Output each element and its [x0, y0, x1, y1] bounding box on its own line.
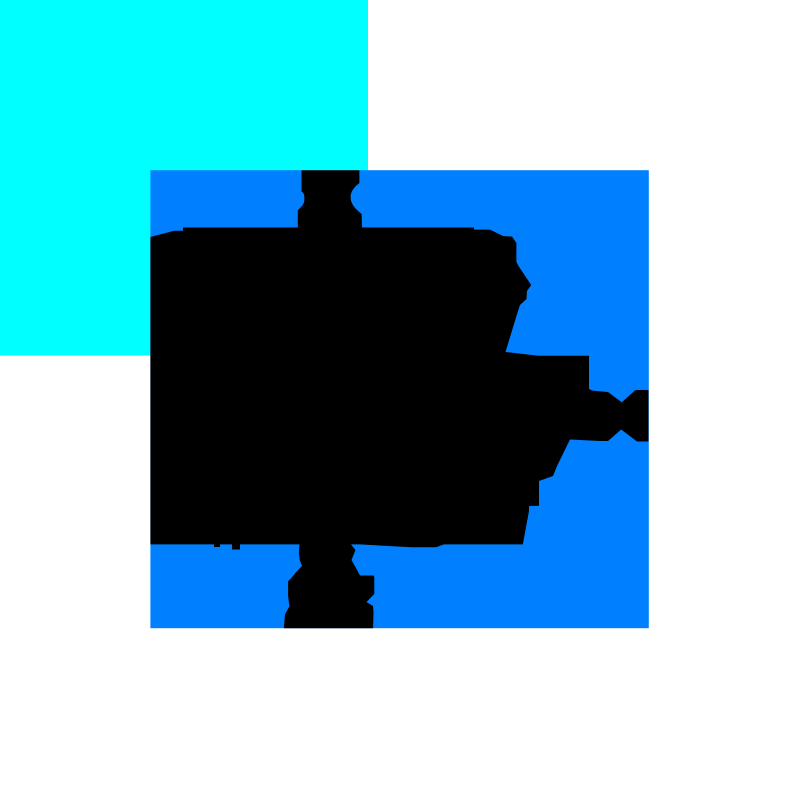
node B — [150, 170, 648, 628]
diode D1 — [621, 390, 649, 442]
node A — [0, 0, 368, 356]
wire — [150, 170, 624, 628]
